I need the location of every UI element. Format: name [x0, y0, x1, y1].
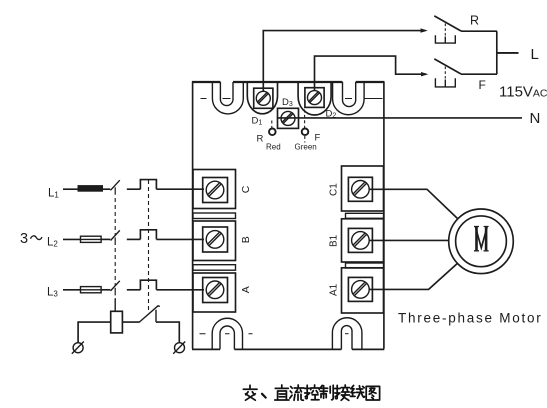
wire D2 up to pushbutton F	[315, 56, 427, 91]
caption char 、	[262, 394, 266, 398]
svg-text:3: 3	[20, 231, 28, 247]
terminal A1 box	[342, 268, 384, 313]
svg-text:B1: B1	[329, 234, 340, 247]
arrowhead at R contact	[421, 28, 428, 32]
thermal linkage (dashed)	[148, 180, 150, 310]
knife switch pole L2	[111, 230, 120, 240]
terminal A box	[193, 273, 236, 312]
svg-text:N: N	[530, 110, 541, 127]
wire heater to terminal C	[156, 188, 204, 190]
module rib strip left 2	[193, 265, 236, 271]
wire to L terminal	[497, 52, 519, 54]
terminal C1 box	[342, 166, 384, 211]
wire D1 up to pushbutton R	[263, 31, 425, 92]
terminal B box	[193, 221, 236, 261]
motor M	[449, 209, 514, 274]
wire switch to heater	[127, 238, 141, 240]
terminal D2 housing	[298, 82, 331, 115]
wire fuse to switch	[103, 188, 111, 190]
wire D3 to N	[278, 117, 523, 119]
overload contact FR	[139, 306, 160, 322]
caption char 图	[366, 386, 379, 400]
wire coil to overload contact	[122, 321, 139, 323]
svg-text:Red: Red	[266, 142, 281, 151]
control terminal right	[173, 342, 185, 354]
fuse FU3 (L3)	[81, 287, 102, 293]
svg-text:A: A	[240, 286, 252, 293]
terminal D3	[278, 108, 299, 128]
knife switch pole L1	[111, 180, 120, 190]
wire R to junction	[461, 30, 497, 32]
svg-text:C1: C1	[329, 183, 340, 196]
wire C1 to motor	[369, 189, 458, 219]
arrowhead at F contact	[421, 72, 428, 76]
mounting slot top-right	[333, 82, 383, 115]
caption char 制	[320, 385, 334, 400]
knife switch pole L3	[111, 281, 120, 291]
wire contact to right control terminal	[156, 322, 179, 342]
svg-text:L: L	[531, 46, 539, 63]
terminal D1 housing	[247, 82, 277, 114]
module rib strip left 1	[193, 213, 236, 219]
wire F to junction	[461, 73, 497, 75]
control terminal left	[72, 342, 84, 354]
svg-text:Green: Green	[295, 142, 317, 151]
module rib strip right 2	[346, 263, 384, 268]
caption char 交	[243, 385, 257, 400]
caption 交、直流控制接线图	[243, 385, 379, 400]
caption char 直	[275, 385, 289, 400]
LED green	[302, 129, 309, 136]
wire coil to left control terminal	[78, 322, 111, 342]
svg-text:R: R	[470, 14, 479, 28]
svg-text:F: F	[479, 78, 486, 92]
dashed link LED green	[304, 110, 306, 143]
svg-text:R: R	[257, 134, 264, 145]
caption char 线	[350, 385, 364, 398]
SSR module body outline	[192, 82, 384, 350]
fuse FU2 (L2)	[81, 236, 102, 242]
thermal element FR (L2)	[140, 230, 156, 240]
wire switch to heater	[127, 289, 141, 291]
phase L2 row	[63, 230, 204, 243]
terminal B1 box	[342, 219, 384, 262]
module rib strip right 1	[346, 213, 384, 218]
svg-text:Three-phase Motor: Three-phase Motor	[398, 311, 543, 326]
thermal element FR (L3)	[140, 280, 156, 290]
LED red	[269, 129, 276, 136]
wire L2 lead-in	[63, 238, 81, 240]
wire heater to terminal A	[156, 289, 204, 291]
contactor coil KM	[111, 311, 123, 333]
caption char 接	[335, 385, 350, 400]
phase L1 row	[63, 180, 204, 192]
wire B1 to motor	[369, 239, 449, 241]
svg-text:A1: A1	[329, 283, 340, 296]
mounting slot bottom-right	[332, 318, 362, 350]
mounting slot bottom-left	[200, 318, 253, 349]
svg-text:B: B	[240, 236, 252, 243]
wire fuse to switch	[101, 289, 110, 291]
dashed link LED red	[271, 121, 273, 129]
thermal element FR (L1)	[140, 180, 156, 190]
switch gang linkage (dashed)	[114, 187, 116, 295]
terminal C box	[193, 170, 236, 209]
pushbutton R	[434, 16, 461, 43]
wire switch to heater	[127, 188, 141, 190]
wire L3 lead-in	[63, 289, 81, 291]
mounting slot top-left	[201, 82, 244, 114]
fuse FU1 (L1, filled)	[78, 186, 103, 192]
caption char 控	[305, 385, 320, 400]
pushbutton F	[434, 59, 461, 87]
wire junction R/F vertical	[496, 31, 498, 74]
svg-text:C: C	[240, 185, 252, 193]
phase L3 row	[63, 280, 204, 293]
wire heater to terminal B	[156, 238, 204, 240]
wire A1 to motor	[369, 264, 457, 290]
wire fuse to switch	[101, 238, 110, 240]
caption char 流	[290, 385, 304, 400]
wire L1 lead-in	[63, 188, 79, 190]
